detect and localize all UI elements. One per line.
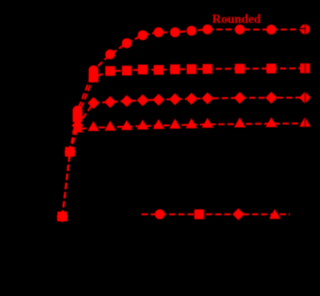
diamond series line (62, 98, 305, 217)
legend markers (155, 208, 281, 220)
right axis spine (black, cuts edge markers) (305, 0, 306, 291)
triangle series line (62, 123, 305, 216)
circle series markers (57, 24, 310, 221)
square series line (62, 68, 305, 216)
diamond series markers (56, 92, 311, 223)
circle series line (62, 29, 305, 216)
triangle series markers (57, 117, 311, 220)
svg-text:Rounded: Rounded (212, 12, 261, 26)
right spine tick at top circle (299, 28, 305, 30)
square series markers (57, 63, 310, 221)
legend sample line (142, 213, 291, 215)
